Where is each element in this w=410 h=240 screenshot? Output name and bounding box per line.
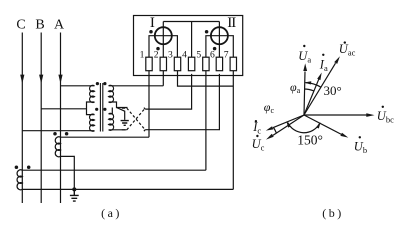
wire PT primary mid bracket (87, 102, 95, 115)
arrow phase C (20, 75, 24, 84)
terminal 3 (174, 57, 180, 70)
svg-text:φc: φc (264, 100, 275, 115)
junction dot ground node (72, 187, 76, 191)
wire terminal 3 down jumper to terminal 7 (178, 71, 234, 86)
crossed wires dashed X (127, 108, 145, 130)
PT core (100, 83, 102, 132)
vector Ia (304, 78, 319, 115)
wire A to PT primary top (61, 85, 95, 87)
wire CT-C top lead to terminal5 (22, 169, 206, 171)
wire PT secondary a to terminal2 (109, 85, 164, 87)
vector Ub (304, 115, 342, 135)
wire terminal 2 down to PT a wire (162, 71, 164, 86)
arc phi-c (274, 128, 277, 133)
wire voltage common top run (163, 21, 219, 23)
svg-text:Ubc: Ubc (377, 109, 394, 125)
wire PT secondary b lower join (109, 108, 113, 114)
wire B to PT primary middle (41, 108, 86, 110)
wire terminal 7 down to CT-C bottom lead (232, 71, 234, 190)
element I current coil wire (149, 36, 177, 58)
wire b to ground diagonal (117, 108, 125, 120)
svg-text:I: I (150, 15, 155, 31)
polarity dot CT-A right (65, 132, 69, 136)
vector Ubc (304, 114, 367, 116)
svg-text:2: 2 (154, 50, 159, 61)
polarity dot CT-C right (27, 165, 31, 169)
svg-text:6: 6 (210, 50, 215, 61)
terminal 4 (188, 57, 194, 70)
svg-text:A: A (54, 18, 65, 33)
svg-text:1: 1 (140, 50, 145, 61)
transformer PT primary winding bottom (B-C) (90, 114, 95, 131)
element II voltage wire (218, 22, 220, 58)
wire phase B vertical (40, 33, 42, 204)
wire PT secondary b step (109, 102, 128, 108)
svg-text:φa: φa (290, 80, 301, 95)
svg-text:Uac: Uac (339, 42, 356, 58)
wire CT-A top lead to terminal1 (61, 136, 150, 138)
wire top run to terminal 4 (191, 22, 193, 58)
polarity dot terminal 2 (156, 47, 160, 51)
arc 30deg with arrow at Ua end (306, 83, 321, 88)
ground CT common (70, 189, 79, 201)
terminal 2 (160, 57, 166, 70)
transformer PT secondary winding top (109, 85, 114, 102)
wire PT secondary c out (109, 129, 127, 131)
wire CT-C bottom lead to terminal7 (22, 188, 233, 190)
polarity dot terminal 6 (213, 47, 217, 51)
meter box (134, 16, 243, 76)
wire terminal 1 down to CT-A lead (148, 71, 150, 138)
arrow phase B (39, 75, 43, 84)
wire phase A vertical (60, 33, 62, 204)
meter element I circle (155, 27, 172, 44)
wire C to PT primary bottom (22, 130, 94, 132)
current transformer CT-A winding (55, 137, 60, 157)
svg-text:3: 3 (168, 50, 173, 61)
current transformer CT-C winding (17, 170, 22, 190)
polarity dot CT-A left (53, 132, 57, 136)
terminal 7 (230, 57, 236, 70)
polarity dot CT-C left (15, 165, 19, 169)
phasor labels (252, 41, 394, 155)
wire terminal 5 down to CT-C top lead (205, 71, 207, 171)
terminal 6 (216, 57, 222, 70)
svg-text:Ia: Ia (319, 58, 328, 74)
svg-text:C: C (16, 18, 25, 33)
svg-text:II: II (227, 15, 236, 31)
svg-text:Uc: Uc (252, 137, 265, 153)
wire X output to terminal 4 (145, 74, 191, 109)
polarity dot PT primary bottom (95, 108, 98, 111)
vector Uc (273, 115, 304, 135)
polarity dot PT primary top (96, 82, 99, 85)
ground PT secondary (121, 121, 129, 126)
element II current coil wire (206, 36, 233, 58)
transformer PT primary winding top (A-B) (90, 85, 95, 102)
svg-text:Ub: Ub (354, 140, 367, 156)
arrow phase A (58, 75, 62, 84)
element I voltage wire (162, 22, 164, 58)
svg-text:4: 4 (182, 50, 187, 61)
polarity dot element II current (205, 30, 209, 34)
transformer PT secondary winding bottom (109, 113, 114, 130)
wire phase C vertical (21, 33, 23, 204)
svg-text:7: 7 (224, 50, 229, 61)
svg-text:(a): (a) (101, 206, 122, 220)
svg-text:(b): (b) (322, 206, 344, 220)
arc phi-a (304, 89, 314, 91)
svg-text:30°: 30° (324, 83, 342, 98)
wire CT-A bottom lead to ground junction (61, 156, 75, 189)
terminal numbers (140, 50, 229, 61)
vector Uac (304, 63, 336, 115)
svg-text:B: B (35, 18, 44, 33)
wire X output to terminal 6 (145, 74, 219, 130)
wire X corner stubs (122, 108, 145, 132)
svg-text:Ic: Ic (252, 120, 261, 136)
arc 150deg with arrows (288, 123, 320, 133)
polarity dot PT secondary bottom (103, 108, 106, 111)
polarity dot PT secondary top (103, 82, 106, 85)
svg-text:Ua: Ua (298, 49, 311, 65)
vector Ua (304, 72, 305, 116)
meter element II circle (211, 27, 228, 44)
vector Ic (273, 115, 304, 128)
svg-text:150°: 150° (297, 132, 323, 147)
polarity dot element I current (149, 30, 153, 34)
terminal 1 (146, 57, 152, 70)
terminal 5 (203, 57, 209, 70)
svg-text:5: 5 (196, 50, 201, 61)
